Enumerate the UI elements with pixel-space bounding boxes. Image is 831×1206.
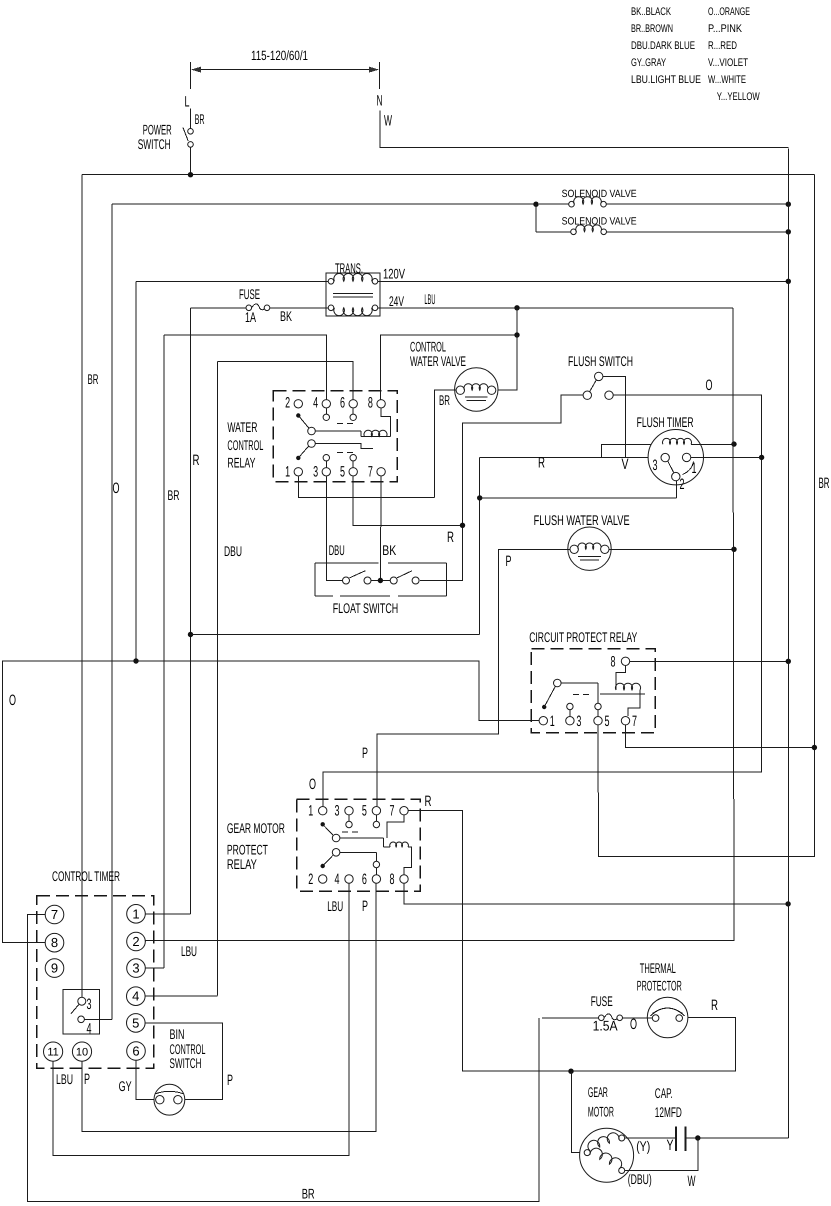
label 1 flush timer <box>692 460 697 477</box>
svg-text:3: 3 <box>313 464 318 481</box>
svg-text:1: 1 <box>550 713 555 730</box>
svg-text:W: W <box>384 113 392 130</box>
wire GMP pin7 R loop <box>409 811 736 1071</box>
bin control switch S3 <box>154 1084 185 1115</box>
svg-text:4: 4 <box>87 1021 92 1038</box>
svg-text:1: 1 <box>132 906 139 921</box>
fuse F1 1A <box>191 304 329 311</box>
label P under GMP <box>362 898 368 915</box>
float switch box <box>315 563 447 596</box>
gear motor protect relay K3 box <box>297 799 421 891</box>
junction power switch to BR rail <box>188 172 193 177</box>
svg-text:LBU: LBU <box>327 898 343 914</box>
label THERMAL PROTECTOR <box>637 960 682 994</box>
label (DBU) <box>628 1171 652 1187</box>
wire 24V LBU line right <box>378 307 733 309</box>
label W at cap <box>688 1173 696 1190</box>
label BR bottom <box>302 1186 315 1202</box>
label DBU vertical <box>224 543 242 559</box>
label BIN CONTROL SWITCH <box>170 1026 206 1071</box>
label P at bin switch <box>227 1072 233 1089</box>
svg-text:P...PINK: P...PINK <box>708 23 743 35</box>
label BR mid <box>168 487 180 503</box>
legend color codes <box>631 6 760 103</box>
label CONTROL WATER VALVE <box>410 339 466 370</box>
svg-text:O: O <box>706 377 713 394</box>
svg-text:6: 6 <box>340 395 345 412</box>
svg-text:P: P <box>84 1071 90 1088</box>
svg-text:DBU: DBU <box>224 543 242 559</box>
svg-text:R: R <box>538 455 545 472</box>
svg-text:4: 4 <box>132 989 139 1004</box>
label O at flush switch <box>706 377 713 394</box>
wire cap right <box>686 1137 788 1139</box>
svg-text:Y...YELLOW: Y...YELLOW <box>717 91 760 103</box>
wire flush switch left to R net <box>420 395 583 580</box>
svg-text:WATER VALVE: WATER VALVE <box>410 353 466 369</box>
svg-text:LBU: LBU <box>181 943 197 959</box>
label 1A <box>245 309 256 325</box>
svg-text:FLUSH WATER VALVE: FLUSH WATER VALVE <box>534 512 630 528</box>
svg-text:1: 1 <box>285 464 290 481</box>
svg-text:CAP.: CAP. <box>655 1085 673 1101</box>
GMP coil <box>384 815 412 874</box>
GMP link dashes <box>342 831 362 833</box>
water control relay lower contact <box>296 440 373 460</box>
GMP upper contact <box>321 822 384 847</box>
transformer T1 <box>326 273 380 316</box>
label O left edge <box>9 692 16 709</box>
junction LBU tee <box>514 332 519 337</box>
svg-text:FLOAT SWITCH: FLOAT SWITCH <box>333 600 399 616</box>
label 3 cam <box>87 996 92 1013</box>
label O at fuse 1.5A <box>630 1016 637 1033</box>
wire R step to timer coil <box>601 444 662 457</box>
wire ct pin5 P <box>145 1023 222 1100</box>
wire WCR pin3 DBU <box>326 476 342 580</box>
capacitor C1 12MFD <box>676 1127 686 1151</box>
svg-text:FUSE: FUSE <box>239 286 260 302</box>
flush timer coil <box>663 438 734 444</box>
label 1.5A <box>593 1017 619 1033</box>
wire gear motor feed <box>571 1071 584 1152</box>
svg-text:115-120/60/1: 115-120/60/1 <box>251 48 308 63</box>
wire solenoid 2 branch <box>535 204 537 232</box>
circuit protect relay coil <box>600 666 645 716</box>
label FLUSH SWITCH <box>568 353 633 369</box>
svg-text:10: 10 <box>76 1047 88 1059</box>
junction float switch BK <box>378 578 383 583</box>
svg-text:SWITCH: SWITCH <box>170 1055 202 1071</box>
svg-text:MOTOR: MOTOR <box>588 1104 614 1120</box>
wire WCR pin1 to valve <box>298 476 434 497</box>
wire R branch to flush area <box>191 634 480 636</box>
label R at thermal <box>711 997 718 1014</box>
svg-text:FLUSH TIMER: FLUSH TIMER <box>637 414 694 430</box>
label GY <box>119 1078 132 1094</box>
wire LBU branch to pin8 WCR <box>381 308 517 400</box>
wire P from flush water valve <box>377 549 570 806</box>
label 115-120/60/1 <box>251 48 308 63</box>
svg-text:3: 3 <box>132 961 139 976</box>
wire 120V line right <box>378 280 789 282</box>
svg-text:120V: 120V <box>383 266 405 282</box>
wire WCR pin5 R <box>353 476 462 525</box>
circuit protect relay K2 box <box>531 649 655 733</box>
svg-text:7: 7 <box>51 907 58 922</box>
wire BR vertical mid <box>163 335 165 968</box>
svg-text:6: 6 <box>362 871 367 888</box>
gear motor protect relay pins <box>308 803 408 888</box>
svg-text:8: 8 <box>51 935 58 950</box>
svg-text:1.5A: 1.5A <box>593 1017 619 1033</box>
junction LBU branch <box>514 305 519 310</box>
svg-text:BIN: BIN <box>170 1026 185 1042</box>
fuse F2 1.5A <box>542 1014 652 1021</box>
junction cap W <box>695 1135 700 1140</box>
svg-text:CIRCUIT PROTECT RELAY: CIRCUIT PROTECT RELAY <box>529 629 637 645</box>
svg-text:1: 1 <box>692 460 697 477</box>
svg-text:8: 8 <box>390 871 395 888</box>
svg-text:BR: BR <box>302 1186 315 1202</box>
junction solenoid branch <box>533 202 538 207</box>
wire gear motor to cap <box>625 1137 675 1139</box>
svg-text:7: 7 <box>368 464 373 481</box>
svg-text:O: O <box>309 776 316 793</box>
svg-text:(Y): (Y) <box>636 1138 650 1154</box>
wire ct pin3 BR <box>145 967 164 969</box>
svg-text:5: 5 <box>132 1015 139 1030</box>
svg-text:O: O <box>113 480 120 497</box>
label P above GMP <box>362 745 368 762</box>
circuit protect relay pins <box>539 654 637 731</box>
label FLOAT SWITCH <box>333 600 399 616</box>
junction O to flush timer pin1 <box>759 455 764 460</box>
svg-text:SWITCH: SWITCH <box>138 136 171 152</box>
svg-text:12MFD: 12MFD <box>655 1104 682 1120</box>
svg-text:3: 3 <box>335 803 340 820</box>
flush timer M1 body <box>648 430 703 485</box>
wire N drop <box>380 110 788 147</box>
circuit protect relay link dash <box>573 694 592 696</box>
label DBU at float switch <box>329 542 345 558</box>
junction flush-left R <box>460 523 465 528</box>
label R at pin5 wire <box>447 529 454 546</box>
wire ct pin6 GY <box>136 1060 156 1099</box>
junction O BR-mid <box>133 658 138 663</box>
junction 120V right <box>786 279 791 284</box>
water control relay pins <box>285 395 385 481</box>
svg-text:FLUSH SWITCH: FLUSH SWITCH <box>568 353 633 369</box>
label R on vertical <box>193 452 200 469</box>
svg-text:DBU.DARK BLUE: DBU.DARK BLUE <box>631 40 695 52</box>
label BR at control water valve <box>439 392 450 408</box>
svg-text:FUSE: FUSE <box>591 993 613 1009</box>
svg-text:N: N <box>377 93 383 110</box>
flush water valve V2 <box>568 527 611 570</box>
svg-text:8: 8 <box>368 395 373 412</box>
wire BR to pin4 WCR <box>164 335 326 399</box>
svg-text:SOLENOID VALVE: SOLENOID VALVE <box>562 188 637 200</box>
svg-text:V: V <box>622 456 629 473</box>
wire 115-120/60/1 dimension line with arrows <box>191 62 380 89</box>
wire BR left vertical <box>81 175 83 998</box>
label 3 flush timer <box>653 457 658 474</box>
svg-text:2: 2 <box>285 395 290 412</box>
label POWER SWITCH <box>138 121 172 151</box>
wire ct pin11 LBU <box>53 884 349 1156</box>
thermal protector TP1 <box>647 997 688 1038</box>
label FLUSH TIMER <box>637 414 694 430</box>
label R at GMP pin7 <box>425 793 432 810</box>
svg-text:6: 6 <box>132 1044 139 1059</box>
svg-text:DBU: DBU <box>329 542 345 558</box>
label 120V <box>383 266 405 282</box>
wire 120V vertical left <box>135 281 137 661</box>
svg-text:5: 5 <box>362 803 367 820</box>
label W at line N <box>384 113 392 130</box>
svg-text:GEAR: GEAR <box>588 1084 608 1100</box>
label SOLENOID VALVE 2 <box>562 216 637 228</box>
svg-text:4: 4 <box>335 871 340 888</box>
svg-text:P: P <box>227 1072 233 1089</box>
svg-text:L: L <box>185 94 190 111</box>
wire LBU branch to control water valve <box>496 335 517 390</box>
gear motor M2 <box>580 1128 634 1182</box>
control timer cam switch box <box>63 990 100 1035</box>
wire BR top rail <box>82 174 814 176</box>
label GEAR MOTOR <box>588 1084 614 1120</box>
svg-text:Y: Y <box>667 1137 674 1154</box>
svg-text:LBU: LBU <box>424 291 435 307</box>
svg-text:3: 3 <box>87 996 92 1013</box>
svg-text:3: 3 <box>576 713 581 730</box>
svg-text:R...RED: R...RED <box>708 40 737 52</box>
label GEAR MOTOR PROTECT RELAY <box>227 820 285 872</box>
wire ct pin4 DBU <box>145 995 218 997</box>
label 24V <box>389 293 404 309</box>
wire O left vertical <box>111 204 113 1019</box>
svg-text:2: 2 <box>308 871 313 888</box>
svg-text:R: R <box>193 452 200 469</box>
svg-text:P: P <box>506 553 512 570</box>
float switch contacts <box>343 571 420 584</box>
svg-text:RELAY: RELAY <box>227 856 257 872</box>
water control relay upper contact <box>296 413 361 436</box>
label (Y) <box>636 1138 650 1154</box>
svg-text:GEAR MOTOR: GEAR MOTOR <box>227 820 285 836</box>
svg-text:W: W <box>688 1173 696 1190</box>
label 4 cam <box>87 1021 92 1038</box>
svg-text:8: 8 <box>611 654 616 671</box>
label V <box>622 456 629 473</box>
svg-text:BR: BR <box>439 392 450 408</box>
wire R main vertical <box>190 308 192 914</box>
label CAP 12MFD <box>655 1085 682 1120</box>
wire flush timer pin1 to O <box>691 456 762 458</box>
svg-text:R: R <box>711 997 718 1014</box>
svg-text:7: 7 <box>632 713 637 730</box>
junction CPR pin7 BR <box>812 745 817 750</box>
label WATER CONTROL RELAY <box>227 419 263 471</box>
power switch S1 <box>183 109 193 175</box>
svg-text:O...ORANGE: O...ORANGE <box>708 6 750 18</box>
label BK top <box>280 308 292 324</box>
svg-text:V...VIOLET: V...VIOLET <box>708 57 748 69</box>
wire DBU vertical <box>217 362 219 996</box>
svg-text:24V: 24V <box>389 293 404 309</box>
label BR left <box>88 371 99 387</box>
wire R riser <box>479 458 481 635</box>
svg-text:BR: BR <box>168 487 180 503</box>
svg-text:P: P <box>362 898 368 915</box>
wire CPR pin8 W <box>630 660 788 662</box>
label LBU top <box>424 291 435 307</box>
junction R riser tee <box>477 495 482 500</box>
svg-text:9: 9 <box>51 961 58 976</box>
control water valve V1 <box>455 368 498 411</box>
label CIRCUIT PROTECT RELAY <box>529 629 637 645</box>
svg-text:PROTECTOR: PROTECTOR <box>637 978 682 994</box>
label FLUSH WATER VALVE <box>534 512 630 528</box>
svg-text:CONTROL: CONTROL <box>227 437 263 453</box>
water control relay aux contacts <box>323 408 356 467</box>
svg-text:(DBU): (DBU) <box>628 1171 652 1187</box>
svg-text:4: 4 <box>313 395 318 412</box>
water control relay coil <box>361 408 391 436</box>
control timer pins <box>44 905 146 1062</box>
svg-text:1A: 1A <box>245 309 256 325</box>
svg-text:BR..BROWN: BR..BROWN <box>631 23 673 35</box>
label Y at cap <box>667 1137 674 1154</box>
wire ct pin7 BR <box>28 915 540 1202</box>
svg-text:7: 7 <box>390 803 395 820</box>
wire O left loop <box>3 661 539 943</box>
wire flush water valve right <box>609 548 734 550</box>
wire DBU to pin6 WCR <box>218 362 354 400</box>
label FUSE 1.5A <box>591 993 613 1009</box>
label LBU under pin11 <box>56 1071 73 1087</box>
svg-text:LBU: LBU <box>56 1071 73 1087</box>
circuit protect relay contact <box>542 679 601 716</box>
label O at GMP pin1 <box>309 776 316 793</box>
svg-text:BR: BR <box>819 475 830 492</box>
label BR at power switch <box>195 111 205 127</box>
control timer box <box>37 896 154 1069</box>
junction GMP pin8 W <box>785 901 790 906</box>
svg-text:R: R <box>447 529 454 546</box>
wire V from flush switch <box>603 376 626 457</box>
junction solenoid 1 right <box>786 202 791 207</box>
svg-text:O: O <box>630 1016 637 1033</box>
wire R horizontal to flush timer <box>480 457 661 459</box>
svg-text:BK: BK <box>382 542 396 558</box>
wire CPR pin7 BR <box>626 725 815 747</box>
label BR right column <box>819 475 830 492</box>
wire 120V line left <box>136 280 328 282</box>
svg-text:GY: GY <box>119 1078 132 1094</box>
solenoid valve 1 <box>539 197 788 207</box>
label R at flush timer <box>538 455 545 472</box>
label L <box>185 94 190 111</box>
flush switch S2 <box>583 372 613 399</box>
wire O from flush switch <box>323 395 762 806</box>
wire control water valve left <box>435 390 456 498</box>
wire R to flush timer pin2 line <box>480 497 677 499</box>
wire ct pin10 P <box>82 884 376 1132</box>
wire ct pin2 LBU <box>144 940 146 943</box>
water control relay link dashes <box>337 423 357 452</box>
svg-text:LBU.LIGHT BLUE: LBU.LIGHT BLUE <box>631 74 701 86</box>
wire W right column <box>787 149 789 1139</box>
svg-text:THERMAL: THERMAL <box>640 960 676 976</box>
junction timer coil LBU <box>731 441 736 446</box>
svg-text:CONTROL TIMER: CONTROL TIMER <box>52 868 120 884</box>
label 2 flush timer <box>680 476 685 493</box>
label BK at float switch <box>382 542 396 558</box>
svg-text:O: O <box>9 692 16 709</box>
svg-text:BR: BR <box>195 111 205 127</box>
solenoid valve 2 <box>536 225 788 235</box>
svg-text:WATER: WATER <box>227 419 257 435</box>
label LBU under GMP <box>327 898 343 914</box>
svg-text:BK: BK <box>280 308 292 324</box>
wire ct pin1 R <box>145 913 190 915</box>
wire W to motor lower <box>625 1138 698 1171</box>
svg-text:2: 2 <box>680 476 685 493</box>
label FUSE 1A <box>239 286 260 302</box>
wire WCR pin7 BK <box>379 476 382 580</box>
label CONTROL TIMER <box>52 868 120 884</box>
svg-text:R: R <box>425 793 432 810</box>
svg-text:GY..GRAY: GY..GRAY <box>631 57 666 69</box>
GMP lower contact <box>321 849 380 875</box>
wire cam circle4 to O <box>84 1018 112 1020</box>
svg-text:11: 11 <box>47 1047 58 1059</box>
svg-text:BK..BLACK: BK..BLACK <box>631 6 671 18</box>
water control relay K1 box <box>273 391 397 482</box>
wire LBU right column <box>145 308 734 941</box>
svg-text:BR: BR <box>88 371 99 387</box>
junction CPR pin8 W <box>786 659 791 664</box>
svg-text:5: 5 <box>340 464 345 481</box>
flush timer contacts <box>661 453 694 481</box>
wire flush timer pin2 down <box>675 481 677 498</box>
svg-text:W...WHITE: W...WHITE <box>708 74 746 86</box>
label P at FWV <box>506 553 512 570</box>
wire CPR pin5 BR <box>598 175 814 857</box>
svg-text:P: P <box>362 745 368 762</box>
control timer cam switch <box>71 997 86 1022</box>
svg-text:5: 5 <box>605 713 610 730</box>
svg-text:3: 3 <box>653 457 658 474</box>
label TRANS. <box>335 260 363 276</box>
svg-text:RELAY: RELAY <box>227 455 255 471</box>
junction FWV LBU <box>731 547 736 552</box>
GMP aux contacts <box>346 815 380 828</box>
label SOLENOID VALVE 1 <box>562 188 637 200</box>
label O on vertical <box>113 480 120 497</box>
label P under pin10 <box>84 1071 90 1088</box>
svg-text:1: 1 <box>308 803 313 820</box>
label N <box>377 93 383 110</box>
label LBU at control timer <box>181 943 197 959</box>
junction solenoid 2 right <box>786 229 791 234</box>
svg-text:2: 2 <box>132 934 139 949</box>
wire GMP pin8 W <box>404 884 788 904</box>
wire O second rail <box>112 203 536 205</box>
junction gear motor feed <box>568 1069 573 1074</box>
